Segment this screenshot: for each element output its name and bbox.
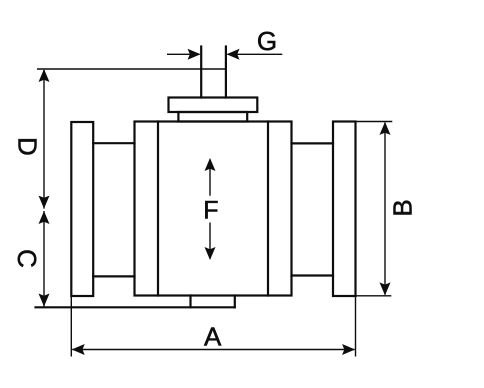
G right arrow tail [228,53,283,55]
base line (C reference) [36,306,235,308]
bottom drain boss right side [234,296,236,308]
A right extension line [355,296,357,357]
D arrowhead down [39,196,50,209]
G left arrow tail [167,53,200,55]
body right end-cap joint line [267,122,269,296]
svg-text:F: F [203,196,218,224]
D top reference line [37,68,226,70]
svg-text:G: G [257,26,277,56]
F arrow lower shaft [209,223,211,259]
B arrowhead up [380,122,391,135]
B bottom extension line [356,295,392,297]
C arrowhead down [39,294,50,307]
svg-text:B: B [387,199,417,216]
right pipe flange [333,122,356,297]
left neck bottom wall [93,275,134,277]
B top extension line [356,121,393,123]
dimension line B [384,123,386,295]
dimension line D [43,70,45,209]
left neck top wall [93,142,134,144]
svg-text:C: C [12,249,42,268]
right neck bottom wall [292,274,334,276]
stuffing-box gland [178,112,247,122]
stem left line [200,47,202,98]
F arrow upper shaft [209,160,211,196]
bottom drain boss left side [189,296,191,308]
svg-text:A: A [204,321,222,351]
valve body [135,122,292,296]
F arrowhead down [205,247,216,260]
top mounting flange plate [169,98,258,113]
G arrowhead right (left side) [188,49,201,60]
dimension line A [72,349,354,351]
G arrowhead left (right side) [227,49,240,60]
D arrowhead up [39,69,50,82]
A left extension line [70,296,72,357]
dimension line C [43,211,45,307]
body left end-cap joint line [157,122,159,296]
right neck top wall [292,142,334,144]
svg-text:D: D [12,137,42,156]
B arrowhead down [380,282,391,295]
stem right line [225,47,227,98]
C arrowhead up [39,211,50,224]
left pipe flange [71,122,93,296]
A arrowhead left [72,344,85,355]
F arrowhead up [205,158,216,171]
A arrowhead right [342,344,355,355]
